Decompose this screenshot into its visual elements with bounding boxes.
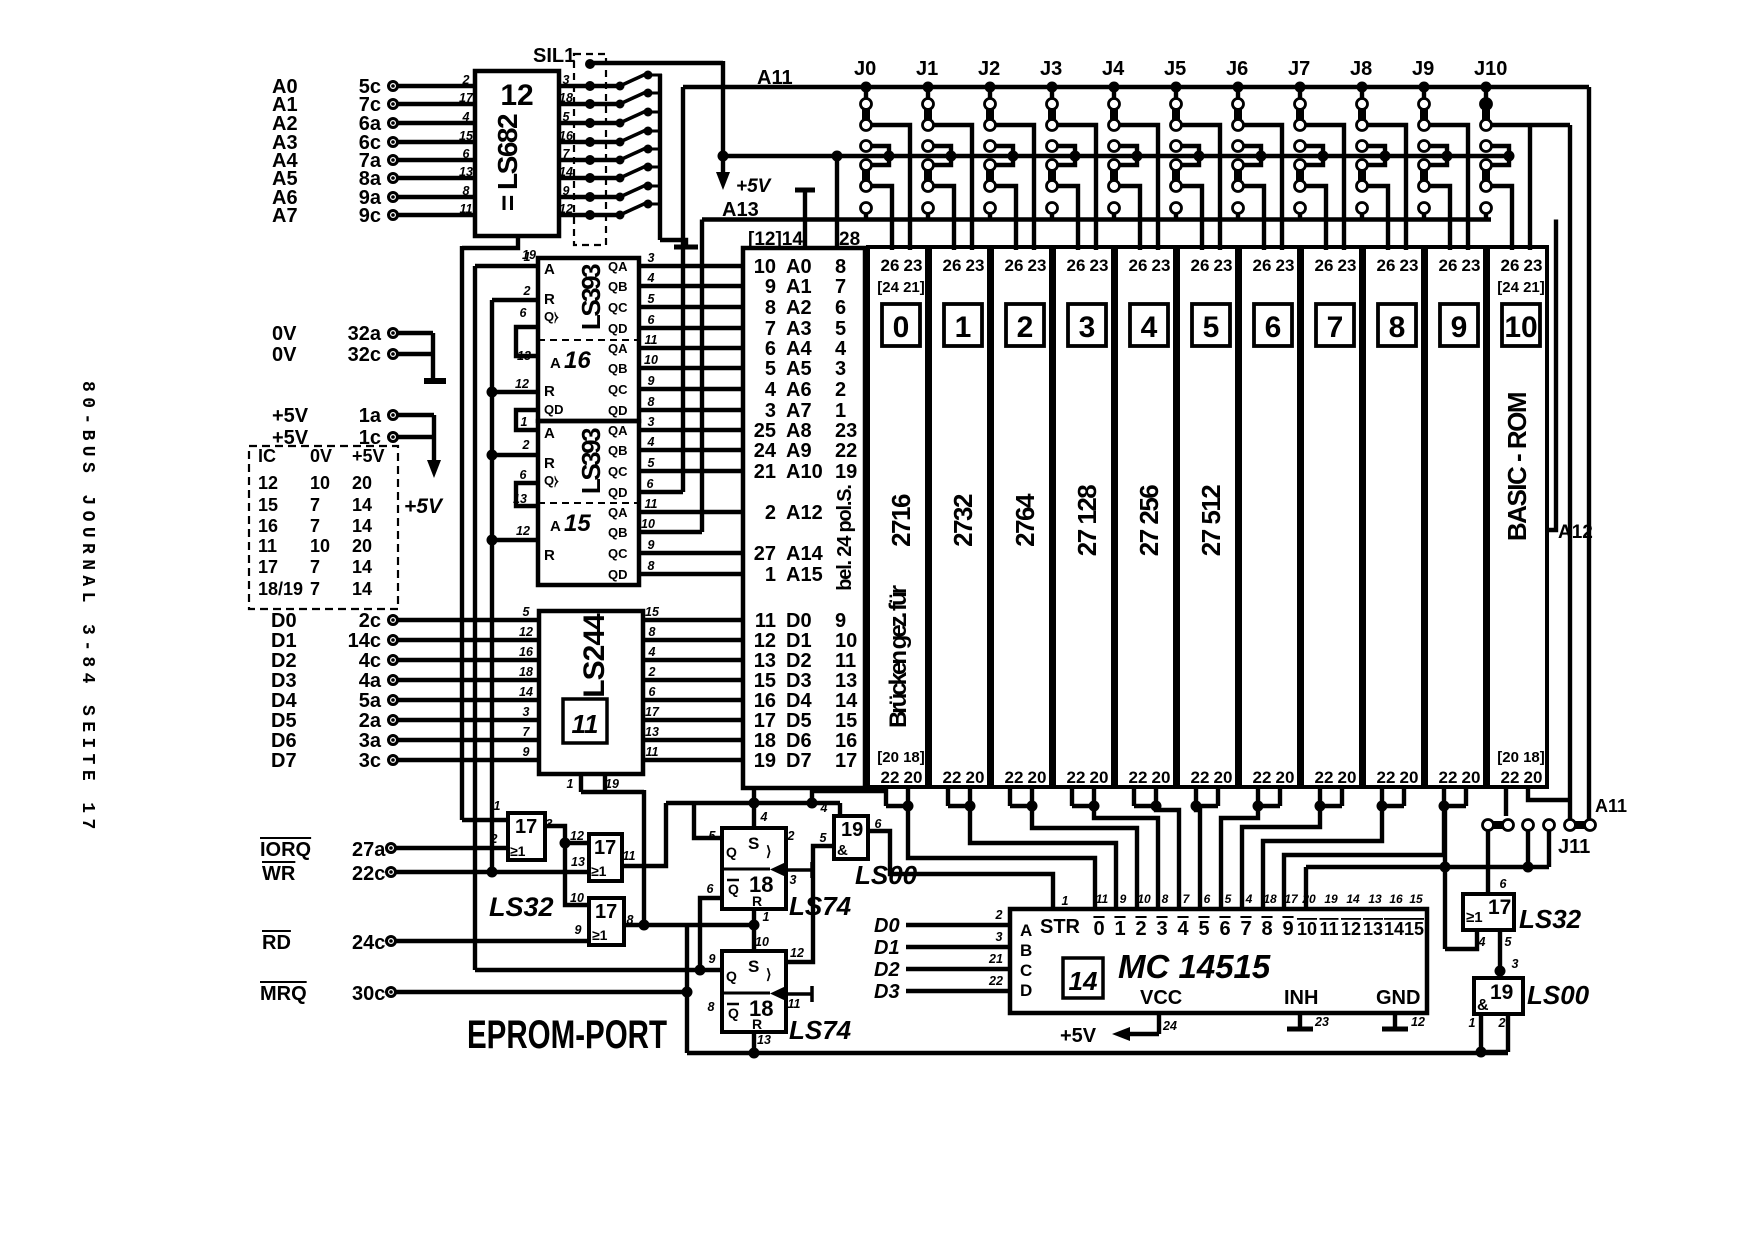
svg-text:1: 1 (567, 777, 574, 791)
svg-text:10: 10 (754, 256, 776, 278)
svg-text:D3: D3 (271, 670, 297, 692)
svg-text:IC: IC (258, 446, 276, 466)
svg-text:12: 12 (516, 524, 530, 538)
wire U16 reset pin2 (492, 298, 538, 302)
wire reset net (687, 923, 754, 927)
svg-text:J10: J10 (1474, 58, 1507, 80)
svg-text:WR: WR (262, 863, 296, 885)
wire column 6 CS pins 22/20 (1256, 787, 1260, 806)
svg-text:LS32: LS32 (489, 892, 554, 922)
jumper J5 +5V Z-link (1171, 141, 1182, 152)
wire U18b D input pin9 (475, 968, 722, 972)
SIL1 switch row 2 (559, 102, 586, 106)
wire J2 pad2 to pin 23 col2 (995, 125, 1034, 250)
column 3 number box (1068, 304, 1106, 346)
wire address A14 row (639, 551, 743, 555)
svg-text:17: 17 (258, 557, 278, 577)
wire column 9 CS pins 22/20 (1442, 787, 1446, 806)
svg-text:2: 2 (787, 829, 795, 843)
svg-text:26: 26 (1067, 256, 1086, 275)
or-gate U17b LS32 (589, 834, 622, 881)
svg-text:VCC: VCC (1140, 987, 1182, 1009)
svg-text:21: 21 (988, 952, 1003, 966)
wire J10 link to J11 pad5 (1568, 125, 1572, 820)
wire U18b clock tick (786, 992, 812, 996)
wire IORQ to U17a (396, 846, 508, 850)
wire column 7 select to decoder output 7 (1242, 806, 1320, 909)
wire A7 to U12 (398, 213, 475, 217)
svg-text:1: 1 (1469, 1016, 1476, 1030)
svg-text:26: 26 (943, 256, 962, 275)
EPROM socket column 8 (1364, 247, 1423, 787)
svg-text:3a: 3a (359, 730, 382, 752)
svg-text:6: 6 (520, 468, 528, 482)
svg-text:2732: 2732 (948, 494, 978, 547)
wire J6 pad6 to A13 bus (1236, 213, 1240, 220)
svg-text:14: 14 (835, 690, 858, 712)
svg-text:16: 16 (564, 347, 591, 374)
svg-text:22c: 22c (352, 863, 385, 885)
wire J9 pad5 to pin 26 col9 (1429, 186, 1450, 250)
svg-text:27 128: 27 128 (1072, 485, 1102, 557)
svg-text:J0: J0 (854, 58, 876, 80)
svg-text:20: 20 (352, 473, 372, 493)
svg-text:STR: STR (1040, 916, 1081, 938)
svg-text:4: 4 (760, 810, 768, 824)
svg-text:16: 16 (559, 129, 574, 143)
svg-text:16: 16 (519, 645, 534, 659)
svg-text:8: 8 (835, 256, 846, 278)
svg-text:6: 6 (649, 685, 657, 699)
svg-text:6: 6 (765, 338, 776, 360)
svg-text:19: 19 (754, 750, 776, 772)
jumper J3 +5V Z-link (1047, 141, 1058, 152)
svg-text:[24 21]: [24 21] (1497, 279, 1545, 296)
wire A13 riser from counter QB (700, 220, 704, 533)
svg-text:17: 17 (754, 710, 776, 732)
wire column 10 CS pin 22 to J11 (1504, 787, 1508, 816)
svg-text:5: 5 (1225, 892, 1232, 906)
svg-text:17: 17 (459, 91, 474, 105)
wire J7 pad6 to A13 bus (1298, 213, 1302, 220)
svg-text:10: 10 (1504, 311, 1537, 344)
wire address A10 row (639, 469, 743, 473)
svg-text:11: 11 (645, 497, 658, 511)
svg-text:SIL1: SIL1 (533, 45, 575, 67)
jumper J9 link 1-2 closed (1420, 108, 1428, 121)
wire A2 to U12 (398, 121, 475, 125)
svg-text:23: 23 (1400, 256, 1419, 275)
wire J8 pad5 to pin 26 col8 (1367, 186, 1388, 250)
svg-text:32c: 32c (348, 344, 381, 366)
svg-text:4: 4 (835, 338, 847, 360)
wire column 5 select to decoder output 5 (1196, 806, 1200, 909)
svg-text:A7: A7 (272, 205, 298, 227)
wire cascade loop QD1-A2 (516, 327, 538, 356)
svg-text:Q: Q (728, 881, 739, 897)
EPROM socket XU1 24/28 pol (743, 248, 865, 788)
jumper J2 link 4-5 closed (986, 169, 994, 182)
svg-text:20: 20 (904, 768, 923, 787)
svg-text:6: 6 (463, 147, 471, 161)
jumper J5 link 1-2 closed (1172, 108, 1180, 121)
wire D6 U11 to socket (643, 738, 743, 742)
svg-text:QA: QA (608, 341, 628, 356)
svg-text:8: 8 (1261, 918, 1272, 940)
svg-text:10: 10 (835, 630, 857, 652)
ground 0V (424, 378, 446, 384)
svg-text:5: 5 (765, 358, 776, 380)
svg-text:3: 3 (648, 251, 655, 265)
wire reset rail (490, 300, 494, 872)
svg-text:R: R (544, 383, 555, 400)
svg-text:0V: 0V (272, 344, 297, 366)
svg-text:2c: 2c (359, 610, 381, 632)
wire J5 pad5 to pin 26 col5 (1181, 186, 1202, 250)
svg-text:A3: A3 (786, 318, 812, 340)
svg-text:Q⧽: Q⧽ (544, 309, 559, 324)
svg-text:7: 7 (310, 579, 320, 599)
svg-text:9: 9 (835, 610, 846, 632)
svg-text:26: 26 (1253, 256, 1272, 275)
svg-text:10: 10 (644, 353, 658, 367)
svg-text:22: 22 (1067, 768, 1086, 787)
svg-text:22: 22 (1315, 768, 1334, 787)
svg-text:A6: A6 (786, 379, 812, 401)
jumper J10 pad1 filled (1480, 98, 1492, 110)
svg-text:4c: 4c (359, 650, 381, 672)
jumper J3 link 4-5 closed (1048, 169, 1056, 182)
wire +5V jumper bus (718, 151, 729, 162)
svg-text:C: C (1020, 961, 1032, 980)
svg-text:18: 18 (1263, 892, 1277, 906)
wire WR to U17b and counter reset (396, 870, 589, 874)
jumper J6 link 4-5 closed (1234, 169, 1242, 182)
wire address A12 row (639, 510, 743, 514)
svg-text:A: A (550, 518, 561, 535)
svg-text:9: 9 (648, 538, 655, 552)
svg-text:3: 3 (1512, 957, 1519, 971)
wire J8 pad6 to A13 bus (1360, 213, 1364, 220)
svg-text:6: 6 (520, 306, 528, 320)
column 8 number box (1378, 304, 1416, 346)
column 5 number box (1192, 304, 1230, 346)
svg-text:22: 22 (1129, 768, 1148, 787)
svg-text:16: 16 (835, 730, 857, 752)
svg-text:20: 20 (1028, 768, 1047, 787)
svg-text:3: 3 (1156, 918, 1167, 940)
svg-text:+5V: +5V (272, 405, 309, 427)
svg-text:14: 14 (559, 165, 573, 179)
svg-text:23: 23 (835, 420, 857, 442)
table IC supply pins (249, 446, 398, 609)
wire A12 stub to BASIC-ROM (1547, 220, 1556, 531)
svg-text:80-BUS JOURNAL 3-84 SEITE 17: 80-BUS JOURNAL 3-84 SEITE 17 (77, 381, 97, 835)
wire U14 VCC pin24 (1157, 1013, 1161, 1034)
svg-text:[20 18]: [20 18] (1497, 749, 1545, 766)
svg-text:22: 22 (1005, 768, 1024, 787)
svg-text:4: 4 (647, 271, 655, 285)
wire +5V feed from SIL1 common (721, 61, 725, 180)
wire column 2 select to decoder output 2 (1032, 806, 1137, 909)
wire J5 pad2 to pin 23 col5 (1181, 125, 1220, 250)
svg-text:J5: J5 (1164, 58, 1186, 80)
wire A11 drop to J11 (1587, 87, 1591, 820)
svg-text:5: 5 (1198, 918, 1209, 940)
svg-text:J6: J6 (1226, 58, 1248, 80)
svg-text:≥1: ≥1 (1466, 909, 1483, 926)
svg-text:A7: A7 (786, 400, 812, 422)
wire Q feedback line bottom (687, 1051, 1508, 1055)
svg-text:QA: QA (608, 505, 628, 520)
svg-text:Brücken gez. für: Brücken gez. für (885, 585, 912, 728)
svg-text:14: 14 (1346, 892, 1360, 906)
svg-text:0V: 0V (272, 323, 297, 345)
wire U18a clock tick (786, 868, 812, 872)
SIL1 switch row 4 (559, 140, 586, 144)
svg-text:D6: D6 (271, 730, 297, 752)
wire U12 P=Q to U17a pin1 (462, 818, 508, 822)
svg-text:A: A (1020, 921, 1032, 940)
svg-text:4: 4 (765, 379, 777, 401)
svg-text:27: 27 (754, 543, 776, 565)
svg-text:14c: 14c (348, 630, 381, 652)
svg-text:15: 15 (645, 605, 660, 619)
svg-text:A: A (544, 261, 555, 278)
svg-text:LS32: LS32 (1519, 904, 1582, 934)
svg-text:≥1: ≥1 (510, 843, 526, 859)
svg-text:R: R (752, 1016, 762, 1032)
wire D1 to U11 (398, 638, 539, 642)
svg-text:3: 3 (765, 400, 776, 422)
wire enable rail down (642, 790, 646, 927)
svg-text:11: 11 (646, 745, 659, 759)
svg-text:B: B (1020, 941, 1032, 960)
EPROM socket column 2 (992, 247, 1051, 787)
SIL1 switch row 7 (559, 195, 586, 199)
jumper J1 link 1-2 closed (924, 108, 932, 121)
svg-text:14: 14 (519, 685, 533, 699)
wire J0 pad2 to pin 23 col0 (871, 125, 910, 250)
svg-text:J7: J7 (1288, 58, 1310, 80)
wire address A4 row (639, 346, 743, 350)
svg-text:12: 12 (790, 946, 804, 960)
label U14 number (1063, 958, 1103, 998)
svg-text:15: 15 (835, 710, 857, 732)
svg-text:24c: 24c (352, 932, 385, 954)
svg-text:7: 7 (310, 495, 320, 515)
svg-text:A0: A0 (786, 256, 812, 278)
svg-text:MRQ: MRQ (260, 983, 307, 1005)
svg-text:3c: 3c (359, 750, 381, 772)
svg-text:27a: 27a (352, 839, 386, 861)
wire U14 INH pin23 (1298, 1013, 1302, 1028)
svg-text:10: 10 (310, 473, 330, 493)
svg-text:7: 7 (1240, 918, 1251, 940)
svg-text:10: 10 (1297, 919, 1317, 939)
wire column 7 CS pins 22/20 (1318, 787, 1322, 806)
svg-text:12: 12 (500, 79, 533, 112)
svg-text:5: 5 (1505, 935, 1513, 949)
svg-text:9: 9 (1120, 892, 1127, 906)
svg-text:6: 6 (1265, 311, 1282, 344)
wire J6 pad5 to pin 26 col6 (1243, 186, 1264, 250)
wire column 10 pin 20 stub (1528, 787, 1570, 800)
svg-text:19: 19 (835, 461, 857, 483)
wire rail P=Q down to gate U17a (460, 246, 464, 820)
svg-text:14: 14 (352, 516, 372, 536)
svg-text:5: 5 (648, 292, 656, 306)
svg-text:4: 4 (462, 110, 470, 124)
svg-text:14: 14 (352, 557, 372, 577)
svg-text:15: 15 (564, 510, 591, 537)
svg-text:MC 14515: MC 14515 (1118, 948, 1271, 985)
svg-text:LS74: LS74 (789, 1015, 852, 1045)
svg-text:23: 23 (904, 256, 923, 275)
svg-text:9: 9 (1451, 311, 1468, 344)
svg-text:9: 9 (575, 923, 582, 937)
svg-text:22: 22 (1439, 768, 1458, 787)
svg-text:26: 26 (1315, 256, 1334, 275)
EPROM socket column 3 (1054, 247, 1113, 787)
svg-text:A: A (550, 355, 561, 372)
jumper J0 +5V Z-link (861, 141, 872, 152)
svg-text:23: 23 (1028, 256, 1047, 275)
svg-text:7: 7 (835, 276, 846, 298)
svg-text:+5V: +5V (736, 176, 772, 197)
svg-text:15: 15 (258, 495, 278, 515)
svg-text:8: 8 (1162, 892, 1169, 906)
jumper J1 link 4-5 closed (924, 169, 932, 182)
wire D0 to U11 (398, 618, 539, 622)
wire address A15 row (639, 572, 743, 576)
jumper J7 +5V Z-link (1295, 141, 1306, 152)
svg-text:2: 2 (1017, 311, 1034, 344)
wire J6 pad2 to pin 23 col6 (1243, 125, 1282, 250)
jumper J8 +5V Z-link (1357, 141, 1368, 152)
svg-text:16: 16 (754, 690, 776, 712)
svg-text:13: 13 (757, 1033, 771, 1047)
svg-text:24: 24 (754, 440, 777, 462)
jumper J11 link 5-6 (1574, 821, 1586, 829)
wire net to socket pin (752, 788, 756, 828)
svg-text:13: 13 (1363, 919, 1383, 939)
svg-text:11: 11 (755, 610, 776, 632)
svg-text:20: 20 (1524, 768, 1543, 787)
svg-text:QB: QB (608, 279, 628, 294)
svg-text:QC: QC (608, 300, 628, 315)
svg-text:20: 20 (1462, 768, 1481, 787)
wire J4 pad5 to pin 26 col4 (1119, 186, 1140, 250)
svg-text:15: 15 (1409, 892, 1423, 906)
svg-text:23: 23 (966, 256, 985, 275)
wire A5 to U12 (398, 176, 475, 180)
svg-text:QB: QB (608, 443, 628, 458)
wire A11 bus horizontal (683, 85, 1589, 89)
svg-text:11: 11 (1319, 919, 1338, 939)
wire D7 to U11 (398, 758, 539, 762)
svg-text:2: 2 (490, 832, 498, 846)
wire column 5 CS pins 22/20 (1194, 787, 1198, 806)
power +5V to socket pin [12]14 (795, 188, 815, 193)
comparator U12 LS682 (475, 71, 559, 236)
svg-text:QA: QA (608, 423, 628, 438)
column 0 number box (882, 304, 920, 346)
wire J2 pad5 to pin 26 col2 (995, 186, 1016, 250)
svg-text:2: 2 (765, 502, 776, 524)
wire U18b reset pin13 (752, 1031, 756, 1053)
wire J9 pad6 to A13 bus (1422, 213, 1426, 220)
wire U15 reset pin12 (492, 538, 538, 542)
wire U17b out to flipflop net (622, 803, 666, 866)
svg-text:19: 19 (841, 819, 863, 841)
svg-text:[20 18]: [20 18] (877, 749, 925, 766)
wire select bus to gate U17d pin4 (1443, 806, 1447, 949)
svg-text:1a: 1a (359, 405, 382, 427)
jumper J4 link 4-5 closed (1110, 169, 1118, 182)
wire column 1 CS pins 22/20 (946, 787, 950, 806)
nand-gate U19b LS00 (1474, 978, 1523, 1014)
SIL1 switch row 5 (559, 158, 586, 162)
svg-text:18: 18 (519, 665, 533, 679)
svg-text:9c: 9c (359, 205, 381, 227)
svg-text:0: 0 (893, 311, 910, 344)
svg-text:26: 26 (1129, 256, 1148, 275)
svg-text:D7: D7 (786, 750, 812, 772)
svg-text:2: 2 (522, 438, 530, 452)
EPROM socket column 4 (1116, 247, 1175, 787)
svg-text:A4: A4 (786, 338, 812, 360)
svg-text:2: 2 (835, 379, 846, 401)
svg-text:1: 1 (524, 250, 531, 264)
wire U18a reset / U18b set rail (752, 909, 756, 951)
svg-text:R: R (752, 893, 762, 909)
wire net to column0 (812, 791, 886, 803)
wire D4 U11 to socket (643, 698, 743, 702)
jumper J7 link 1-2 closed (1296, 108, 1304, 121)
wire column 1 select to decoder output 1 (970, 806, 1116, 909)
svg-text:18/19: 18/19 (258, 579, 303, 599)
wire J9 pad2 to pin 23 col9 (1429, 125, 1468, 250)
svg-text:QA: QA (608, 259, 628, 274)
wire column 8 select to decoder output 8 (1263, 806, 1382, 909)
svg-text:D7: D7 (271, 750, 297, 772)
svg-text:22: 22 (943, 768, 962, 787)
svg-text:6: 6 (835, 297, 846, 319)
svg-text:A: A (544, 425, 555, 442)
wire A4 to U12 (398, 158, 475, 162)
wire address A8 row (639, 428, 743, 432)
decoder U14 MC14515 (1010, 909, 1427, 1013)
wire A1 to U12 (398, 102, 475, 106)
jumper J4 link 1-2 closed (1110, 108, 1118, 121)
EPROM socket column 9 (1426, 247, 1485, 787)
wire select bus to J11 (1306, 865, 1549, 869)
svg-text:4: 4 (820, 801, 828, 815)
svg-text:7: 7 (563, 147, 571, 161)
svg-text:9: 9 (1282, 918, 1293, 940)
wire RD to U17c (396, 939, 589, 943)
svg-text:20: 20 (966, 768, 985, 787)
svg-text:1: 1 (1062, 894, 1069, 908)
svg-text:10: 10 (641, 517, 655, 531)
svg-text:22: 22 (1191, 768, 1210, 787)
svg-text:13: 13 (754, 650, 776, 672)
wire column 4 select to decoder output 4 (1156, 806, 1179, 909)
jumper J6 link 1-2 closed (1234, 108, 1242, 121)
SIL1 switch row 1 (559, 84, 586, 88)
svg-text:7: 7 (523, 725, 531, 739)
